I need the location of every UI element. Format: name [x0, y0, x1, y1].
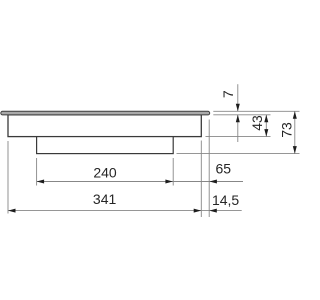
extension line horizontal glass top [213, 110, 299, 112]
svg-text:43: 43 [249, 115, 265, 131]
svg-text:73: 73 [279, 122, 295, 138]
extension line horizontal glass bottom [213, 114, 270, 116]
svg-text:341: 341 [93, 191, 117, 207]
dimension 65 arrow left-outside [209, 180, 217, 184]
dimension 341 arrow left [8, 209, 16, 213]
dimension 7 arrow up [236, 115, 240, 123]
dimension 73 line [294, 111, 296, 153]
hob casing upper box [8, 115, 201, 137]
extension line vertical x8 (casing left) [7, 141, 9, 214]
extension line vertical x201.3 (casing right) [200, 141, 202, 218]
svg-text:7: 7 [220, 90, 236, 98]
extension line vertical x173.2 (lower box right) [172, 158, 174, 186]
dimension 43 line [265, 115, 267, 137]
dimension 240 arrow left [37, 180, 45, 184]
dimension line 341 / 14,5 [8, 210, 242, 212]
extension line vertical x209.2 (glass right) [208, 120, 210, 218]
dimension 240 arrow right [165, 180, 173, 184]
extension line vertical x36.6 (lower box left) [36, 158, 38, 186]
dimension 7 arrow down [236, 104, 240, 112]
svg-text:240: 240 [93, 165, 117, 181]
dimension line 240 / 65 [37, 181, 243, 183]
extension line horizontal casing bottom [206, 136, 271, 138]
dimension 73 arrow down [293, 146, 297, 154]
dimension 14,5 arrow left-outside [209, 209, 217, 213]
dimension 73 arrow up [293, 111, 297, 119]
dimension 7 line lower tail [237, 115, 239, 142]
dimension 341 arrow right [194, 209, 202, 213]
hob lower box [37, 137, 174, 154]
dimension 43 arrow up [264, 115, 268, 123]
dimension 43 arrow down [264, 129, 268, 137]
extension line horizontal lower box bottom [177, 153, 300, 155]
svg-text:14,5: 14,5 [212, 192, 239, 208]
dimension 7 line upper tail [237, 84, 239, 111]
svg-text:65: 65 [216, 160, 232, 176]
glass plate [1, 111, 210, 115]
